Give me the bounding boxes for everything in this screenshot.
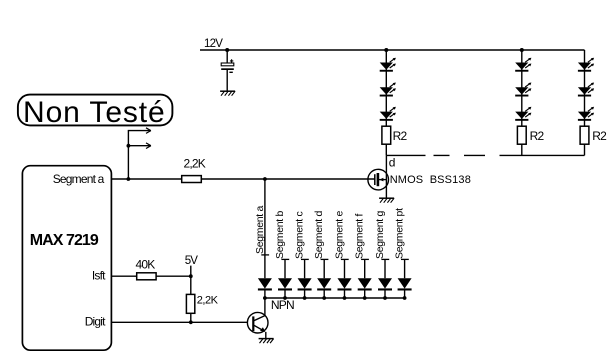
svg-text:Segment pt: Segment pt: [394, 208, 406, 259]
svg-text:Segment e: Segment e: [334, 210, 346, 259]
junction segment d bus: [322, 296, 326, 300]
junction segment a wire / arrows: [126, 177, 130, 181]
NMOS internals: [375, 173, 387, 186]
svg-text:2,2K: 2,2K: [197, 294, 219, 306]
svg-text:5V: 5V: [185, 255, 199, 267]
wire segment e stub: [344, 259, 346, 278]
svg-text:40K: 40K: [136, 258, 156, 272]
junction segment c bus: [303, 296, 307, 300]
wire segment a net (MAX7219 to NMOS gate): [111, 178, 374, 180]
resistor 2,2K horizontal: [182, 176, 202, 183]
diode segment c: [298, 278, 312, 298]
diode segment d: [317, 278, 331, 298]
IC MAX 7219: [22, 166, 111, 351]
svg-text:NMOS BSS138: NMOS BSS138: [390, 174, 471, 186]
svg-text:Segment a: Segment a: [53, 172, 105, 186]
svg-text:R2: R2: [530, 129, 545, 143]
junction segment b bus: [283, 296, 287, 300]
resistor R2 string 3: [580, 126, 589, 144]
wire bottom bus with dashed continuation: [386, 154, 584, 156]
LED D7 string 3: [578, 58, 594, 72]
ground below NPN: [259, 339, 274, 344]
resistor 40K: [137, 273, 156, 280]
wire LED string 2: [521, 50, 523, 155]
junction segment e bus: [343, 296, 347, 300]
diode segment b: [278, 278, 292, 298]
LED D1 string 1: [380, 58, 396, 72]
wire diode cathode bus: [265, 297, 405, 299]
junction segment g bus: [383, 296, 387, 300]
transistor U1 NMOS BSS138: [368, 169, 389, 190]
wire LED string 1: [385, 50, 387, 155]
wire segment b stub: [284, 259, 286, 278]
LED D9 string 3: [578, 107, 594, 121]
LED D4 string 2: [515, 58, 531, 72]
LED D2 string 1: [380, 83, 396, 97]
transistor Q2 NPN: [247, 312, 268, 333]
wire segment pt stub: [404, 259, 406, 278]
net label Segment g: [374, 210, 389, 259]
wire Isft net: [111, 275, 190, 277]
net connector arrows below Non Testé: [126, 128, 150, 179]
junction segment a bus: [263, 296, 267, 300]
svg-text:Segment d: Segment d: [313, 210, 325, 259]
wire Digit net: [111, 321, 253, 323]
wire segment f stub: [364, 259, 366, 278]
junction segment f bus: [363, 296, 367, 300]
svg-text:d: d: [389, 156, 395, 170]
LED D3 string 1: [380, 107, 396, 121]
net label Segment a: [254, 205, 269, 254]
LED D6 string 2: [515, 107, 531, 121]
capacitor C1 polarized: [221, 59, 234, 72]
wire segment a stub: [264, 179, 266, 278]
net label Segment pt: [394, 208, 409, 259]
svg-text:R2: R2: [393, 129, 408, 143]
svg-text:Segment g: Segment g: [374, 210, 386, 259]
junction segment a column: [263, 177, 267, 181]
diode segment pt: [398, 278, 412, 298]
wire 5V branch: [190, 266, 192, 323]
junction 5V / Isft: [189, 274, 193, 278]
ground below NMOS: [379, 198, 394, 203]
diode segment e: [338, 278, 352, 298]
resistor 2,2K vertical: [186, 294, 194, 313]
ground below capacitor: [220, 91, 235, 96]
wire segment d stub: [323, 259, 325, 278]
junction LED string 1 top: [384, 48, 388, 52]
wire LED string 3: [584, 50, 586, 155]
svg-text:Isft: Isft: [92, 268, 106, 282]
svg-text:MAX 7219: MAX 7219: [30, 232, 99, 249]
annotation box Non Testé: [18, 95, 173, 126]
svg-text:Segment f: Segment f: [354, 213, 366, 259]
LED D5 string 2: [515, 83, 531, 97]
resistor R2 string 2: [517, 126, 526, 144]
diode segment f: [358, 278, 372, 298]
svg-text:Segment a: Segment a: [254, 205, 266, 254]
net label Segment c: [294, 211, 309, 259]
svg-text:NPN: NPN: [271, 298, 294, 312]
diode segment a: [258, 278, 272, 298]
wire 12V rail: [200, 49, 585, 51]
wire NPN emitter: [265, 332, 267, 339]
junction Digit / resistor: [189, 320, 193, 324]
net label Segment f: [354, 213, 369, 259]
resistor R2 string 1: [382, 126, 391, 144]
diode segment g: [378, 278, 392, 298]
net label Segment d: [313, 210, 328, 259]
wire segment g stub: [384, 259, 386, 278]
wire NPN collector: [264, 298, 266, 316]
junction LED string 2 top: [520, 48, 524, 52]
LED D8 string 3: [578, 83, 594, 97]
svg-text:Segment c: Segment c: [294, 211, 306, 259]
junction capacitor tap: [225, 48, 229, 52]
svg-text:Digit: Digit: [85, 315, 106, 329]
wire capacitor bottom lead: [226, 70, 228, 91]
wire capacitor top lead: [226, 50, 228, 63]
svg-text:2,2K: 2,2K: [184, 157, 206, 171]
wire NMOS drain-source vertical: [385, 155, 387, 197]
svg-text:Segment b: Segment b: [274, 210, 286, 259]
junction segment pt bus: [403, 296, 407, 300]
net label Segment b: [274, 210, 289, 259]
svg-text:R2: R2: [592, 129, 607, 143]
svg-text:Non Testé: Non Testé: [23, 96, 166, 129]
wire segment c stub: [304, 259, 306, 278]
svg-text:12V: 12V: [204, 38, 223, 50]
net label Segment e: [334, 210, 349, 259]
